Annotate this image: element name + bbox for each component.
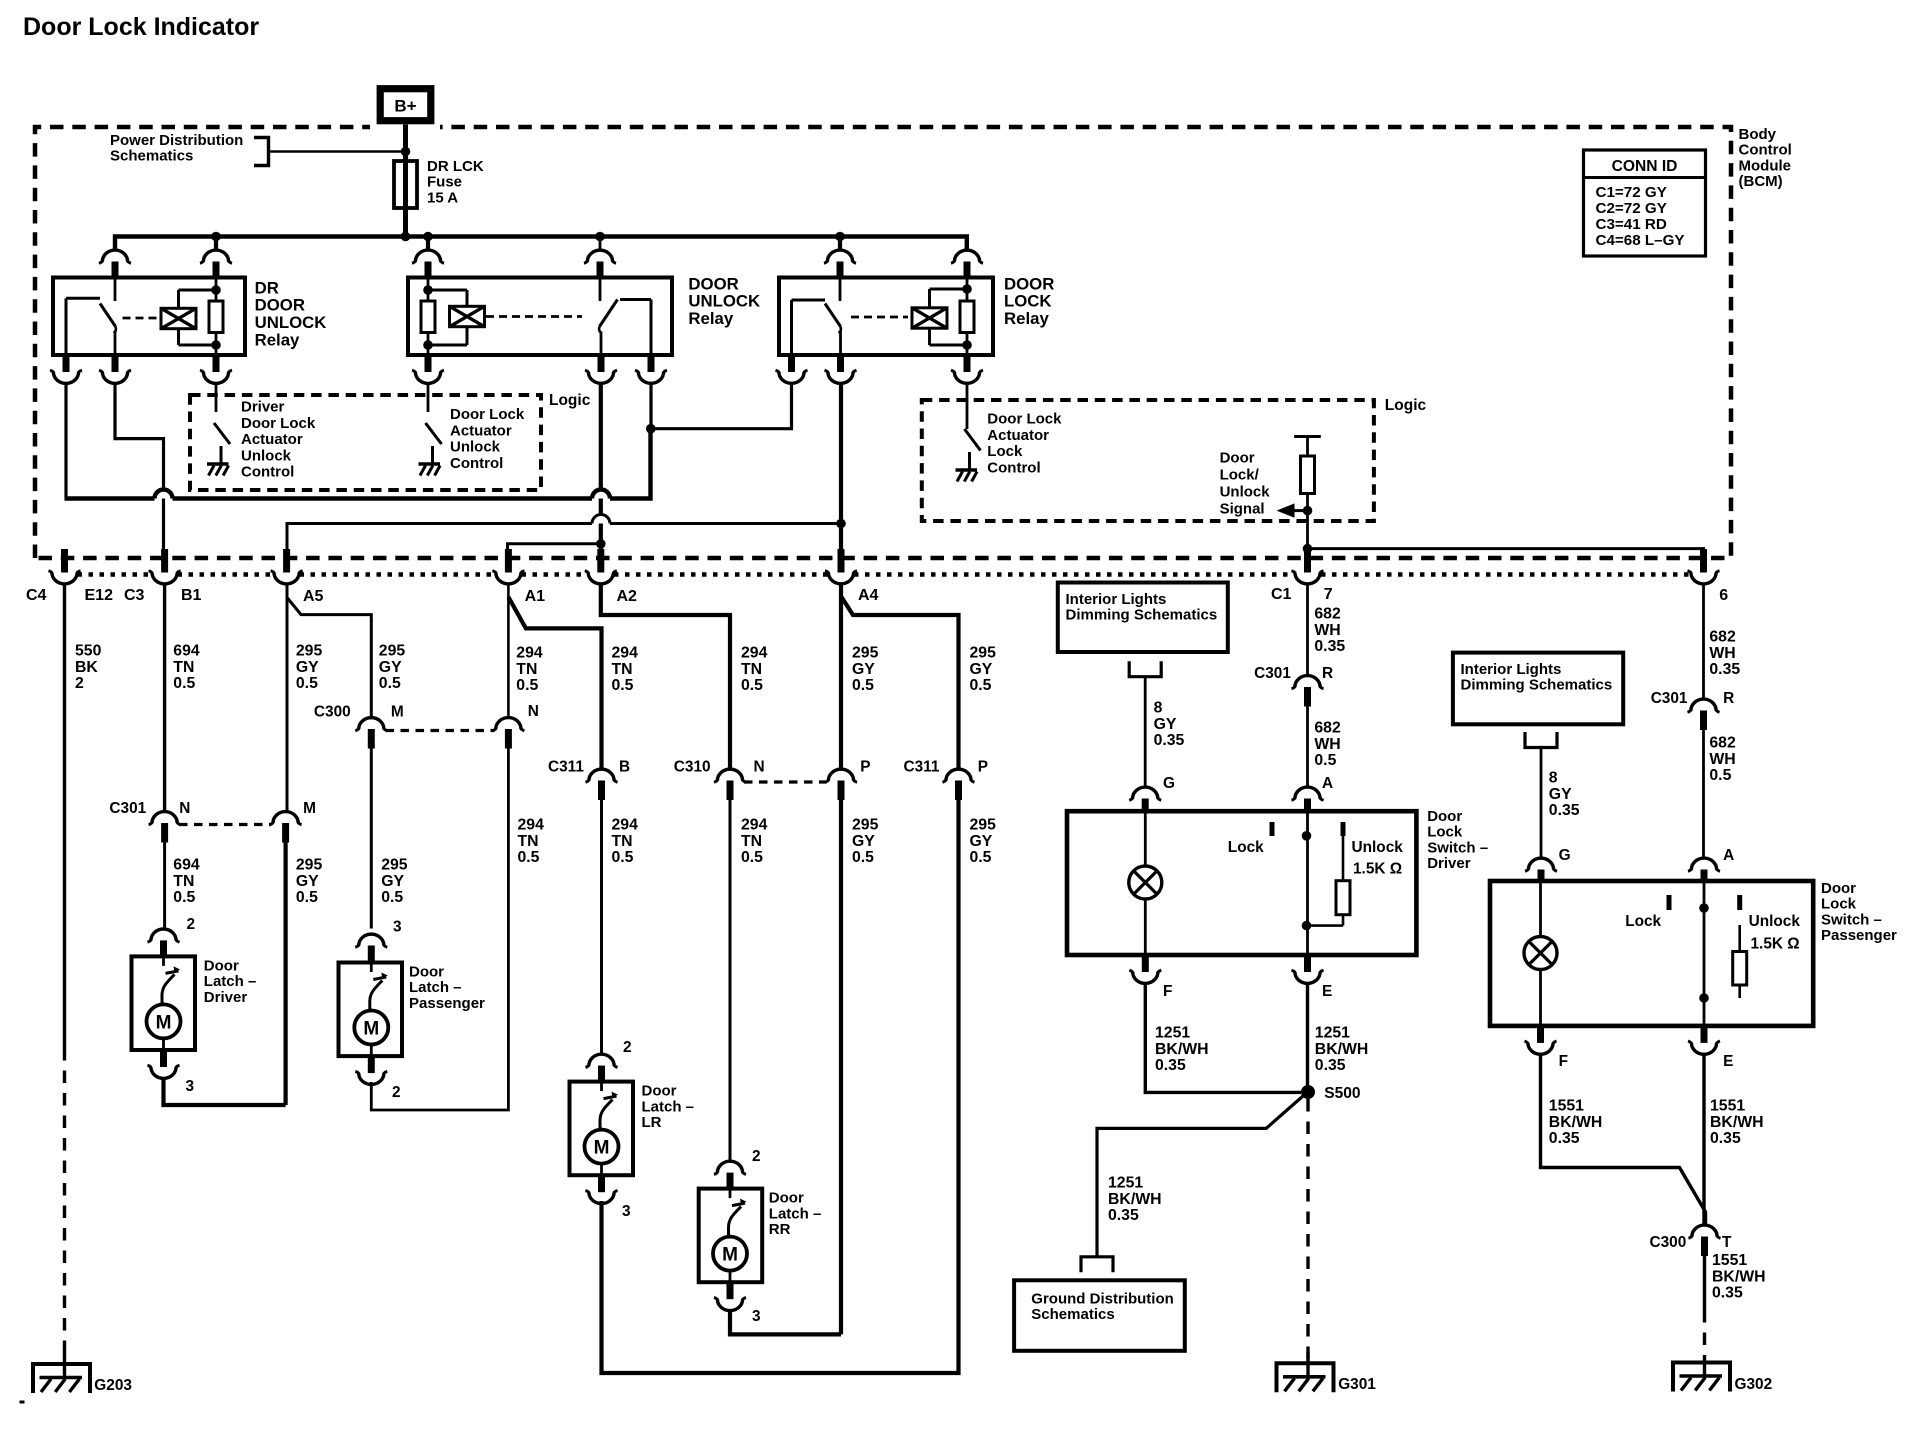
svg-text:Actuator: Actuator [450, 422, 512, 439]
wire: motor to box bottom (RR) [729, 1271, 732, 1283]
svg-text:1251: 1251 [1108, 1175, 1143, 1192]
motor M (RR latch) [713, 1237, 747, 1271]
box: Interior Lights Dimming Schematics (driver) [1058, 583, 1228, 653]
ground G302 [1673, 1363, 1730, 1392]
wire 295 GY: C301 M to latch return [284, 843, 288, 1106]
svg-text:2: 2 [752, 1148, 761, 1165]
svg-text:1.5K Ω: 1.5K Ω [1751, 936, 1800, 953]
connector pin A2 [585, 549, 617, 584]
label: Door Latch LR [642, 1083, 695, 1131]
wire 682 WH: C301 R to switch A (passenger) [1702, 730, 1705, 858]
label: 295 GY 0.5 (passenger feed) [381, 857, 408, 907]
svg-text:A1: A1 [525, 588, 546, 605]
connector C311 pin B [586, 769, 618, 800]
connector C3 pin B1 [149, 549, 181, 584]
svg-text:Control: Control [1739, 142, 1792, 159]
svg-text:0.35: 0.35 [1712, 1285, 1743, 1302]
svg-text:15 A: 15 A [427, 189, 458, 206]
svg-text:S500: S500 [1324, 1085, 1361, 1102]
svg-text:F: F [1559, 1053, 1568, 1070]
box: Interior Lights Dimming Schematics (passenger) [1453, 653, 1623, 725]
relay K2 DOOR UNLOCK Relay box [408, 278, 672, 356]
label: Door Lock Actuator Lock Control [987, 410, 1062, 476]
connector C4 pin E12 [49, 549, 81, 584]
svg-text:E: E [1322, 983, 1332, 1000]
svg-text:BK/WH: BK/WH [1712, 1268, 1766, 1285]
svg-text:Latch –: Latch – [642, 1098, 695, 1115]
wire: A1 fork to C311 B [508, 597, 601, 769]
svg-text:Signal: Signal [1220, 500, 1265, 517]
label: C1 [1271, 586, 1292, 603]
svg-text:T: T [1722, 1234, 1732, 1251]
wire: signal branch to pin 6 [1308, 547, 1704, 550]
wire: B+ bus [115, 237, 967, 250]
svg-text:Logic: Logic [1385, 397, 1427, 414]
svg-text:P: P [860, 759, 870, 776]
relay K2 mechanical link [486, 315, 582, 318]
label: C4 [26, 587, 47, 604]
svg-text:Door Lock: Door Lock [450, 406, 525, 423]
ground G203 [33, 1364, 90, 1393]
junction: bus at relay3 switch [835, 232, 845, 242]
svg-text:0.35: 0.35 [1314, 638, 1345, 655]
relay K3 coil winding [960, 278, 974, 356]
svg-text:682: 682 [1709, 735, 1736, 752]
connector C301 pin R (passenger) [1688, 699, 1720, 730]
label: 1551 BK/WH 0.35 (E passenger) [1710, 1098, 1764, 1148]
svg-text:0.35: 0.35 [1709, 661, 1740, 678]
door latch Passenger pin 2 connector [355, 1055, 387, 1084]
relay K1 pin 1 connector (top) [99, 237, 131, 279]
svg-text:F: F [1163, 983, 1172, 1000]
door latch LR pin 2 connector [586, 1054, 618, 1082]
svg-text:GY: GY [296, 659, 319, 676]
connector C1 pin 7 [1292, 549, 1324, 584]
svg-text:2: 2 [75, 675, 84, 692]
svg-text:1551: 1551 [1710, 1098, 1745, 1115]
label: 295 GY 0.5 (below C311 P) [970, 817, 997, 867]
svg-text:C301: C301 [1651, 690, 1688, 707]
label: 1.5K ohm (driver) [1353, 861, 1402, 878]
wire 682 WH: C1 7 to C301 R [1306, 584, 1309, 676]
svg-text:Control: Control [987, 459, 1040, 476]
relay K1 pin 3 connector (bottom) [50, 354, 82, 383]
door latch RR switch [729, 1189, 747, 1237]
svg-text:Unlock: Unlock [1749, 913, 1801, 930]
wire: motor to box bottom (Passenger) [370, 1045, 373, 1057]
label: C311 (B) [548, 759, 584, 776]
switch S1 pin E connector [1292, 954, 1324, 983]
label: A4 [858, 587, 879, 604]
svg-text:A: A [1723, 847, 1734, 864]
relay K2 coil branch [428, 290, 467, 345]
svg-text:CONN ID: CONN ID [1612, 158, 1678, 175]
label: C301 (R passenger) [1651, 690, 1688, 707]
svg-text:P: P [978, 759, 988, 776]
svg-text:R: R [1723, 690, 1734, 707]
connector pin A4 [825, 549, 857, 584]
signal arrow: Door Lock/Unlock Signal [1277, 503, 1305, 517]
wire: switch common (driver) [1306, 811, 1309, 955]
svg-text:M: M [363, 1019, 379, 1040]
svg-text:M: M [594, 1138, 610, 1159]
svg-text:A4: A4 [858, 587, 879, 604]
svg-text:DR: DR [255, 278, 279, 297]
svg-text:GY: GY [970, 833, 993, 850]
svg-text:WH: WH [1709, 751, 1735, 768]
label: 295 GY 0.5 (below P) [852, 817, 879, 867]
svg-text:C4: C4 [26, 587, 47, 604]
svg-text:C300: C300 [314, 704, 351, 721]
svg-text:0.35: 0.35 [1549, 802, 1580, 819]
connector C300 pin T [1689, 1225, 1721, 1256]
wire: resistor to signal node [1306, 494, 1309, 511]
svg-text:1551: 1551 [1549, 1098, 1584, 1115]
svg-text:2: 2 [623, 1039, 632, 1056]
connector pin P (on A4 wire) [825, 769, 857, 800]
connector pin A5 [271, 549, 303, 584]
label: A2 [617, 588, 638, 605]
connector pin 6 [1688, 549, 1720, 584]
label: pin 2 (driver latch) [187, 916, 196, 933]
svg-text:C311: C311 [904, 759, 940, 776]
svg-text:Lock: Lock [987, 443, 1023, 460]
junction: bus at relay2 switch [595, 232, 605, 242]
svg-text:0.5: 0.5 [516, 677, 538, 694]
wire: lamp to box bottom (passenger) [1539, 970, 1542, 1026]
svg-text:Lock: Lock [1821, 896, 1857, 913]
svg-text:0.5: 0.5 [852, 677, 874, 694]
ground: lock control (chassis) [956, 452, 978, 482]
wire 694 TN: C301 N to door latch driver pin 2 [163, 843, 166, 930]
label: A1 [525, 588, 546, 605]
connector C301 pin M [270, 812, 302, 843]
bracket: interior lights driver [1129, 661, 1161, 677]
label: M (C300) [391, 704, 404, 721]
label: Door Latch Driver [204, 957, 257, 1005]
svg-text:GY: GY [1549, 786, 1572, 803]
label: Logic (right) [1385, 397, 1427, 414]
box: Ground Distribution Schematics [1014, 1280, 1185, 1351]
label: B1 [181, 587, 202, 604]
svg-text:295: 295 [970, 645, 997, 662]
relay K2 pin 2 connector (top) [584, 237, 616, 279]
junction: bus at relay2 coil [423, 232, 433, 242]
svg-text:TN: TN [612, 661, 633, 678]
svg-text:LOCK: LOCK [1004, 292, 1052, 311]
ground: unlock control (chassis) [419, 446, 441, 476]
wire 1551: F to C300 T (passenger) [1541, 1053, 1706, 1225]
motor M (LR latch) [585, 1130, 619, 1164]
svg-text:C311: C311 [548, 759, 584, 776]
svg-text:Door: Door [1427, 808, 1462, 825]
svg-text:7: 7 [1324, 586, 1333, 603]
svg-text:Switch –: Switch – [1821, 911, 1882, 928]
label: G (driver) [1163, 775, 1175, 792]
jumper: C301 N to M [179, 823, 271, 826]
svg-text:TN: TN [741, 833, 762, 850]
relay K1 coil junctions [211, 285, 221, 350]
switch S2 pin G connector [1525, 858, 1557, 882]
Body Control Module (BCM) dashed boundary [35, 127, 1731, 558]
svg-text:0.5: 0.5 [296, 889, 318, 906]
label: pin 3 (driver latch) [186, 1078, 195, 1095]
svg-text:Ground Distribution: Ground Distribution [1031, 1290, 1173, 1307]
svg-text:E12: E12 [85, 587, 114, 604]
label: Door Lock Actuator Unlock Control [450, 406, 525, 472]
door latch Passenger box [339, 963, 403, 1057]
relay K2 pin 4 connector (bottom) [585, 354, 617, 383]
label: 294 TN 0.5 (below C300 N) [518, 817, 545, 867]
stray mark [20, 1401, 25, 1404]
connector body dotted line [78, 572, 1691, 577]
label: C301 (R driver) [1254, 665, 1291, 682]
relay K2 pin 3 connector (bottom) [412, 354, 444, 383]
svg-text:TN: TN [516, 661, 537, 678]
svg-text:WH: WH [1314, 622, 1340, 639]
svg-text:R: R [1322, 665, 1333, 682]
junction: lower node (passenger) [1699, 993, 1709, 1003]
svg-text:0.35: 0.35 [1549, 1130, 1580, 1147]
relay K1 DR DOOR UNLOCK Relay box [53, 278, 245, 356]
relay K3 coil junctions [962, 284, 972, 350]
svg-text:3: 3 [186, 1078, 195, 1095]
label: R (passenger) [1723, 690, 1734, 707]
connector pin A1 [492, 549, 524, 584]
svg-text:0.5: 0.5 [518, 849, 540, 866]
svg-text:Door: Door [642, 1083, 677, 1100]
label: 8 GY 0.35 (passenger) [1549, 770, 1580, 820]
svg-text:1551: 1551 [1712, 1252, 1747, 1269]
label: P (C311) [978, 759, 988, 776]
svg-text:295: 295 [381, 857, 408, 874]
svg-text:C4=68 L–GY: C4=68 L–GY [1596, 232, 1685, 249]
junction: A5 branch node [836, 519, 846, 529]
door latch Driver switch [162, 956, 180, 1004]
relay K3 DOOR LOCK Relay box [779, 278, 993, 356]
svg-text:E: E [1723, 1053, 1733, 1070]
wire: B+ down to fuse [403, 125, 408, 162]
svg-text:Door Lock Indicator: Door Lock Indicator [23, 13, 259, 41]
svg-text:C1=72 GY: C1=72 GY [1596, 184, 1667, 201]
svg-text:0.35: 0.35 [1154, 732, 1185, 749]
label: 694 TN 0.5 (upper) [173, 643, 200, 693]
connector C301 pin N [149, 812, 181, 843]
label: 295 GY 0.5 (A4 column) [852, 645, 879, 695]
svg-text:Switch –: Switch – [1427, 839, 1488, 856]
relay K3 switch [792, 278, 841, 356]
svg-text:C301: C301 [109, 800, 146, 817]
label: G302 [1735, 1376, 1773, 1393]
ground G301 [1277, 1352, 1334, 1392]
wire: relay K2 pin4 to A2 [599, 385, 603, 550]
svg-text:0.5: 0.5 [1709, 767, 1731, 784]
label: 295 GY 0.5 (below C301 M) [296, 857, 323, 907]
label: 294 TN 0.5 (LR feed) [612, 817, 639, 867]
door latch LR box [570, 1082, 634, 1176]
label: R (driver) [1322, 665, 1333, 682]
label: C311 (P) [904, 759, 940, 776]
wire: relay K1 pin5 to unlock control switch [215, 385, 218, 413]
svg-text:G: G [1559, 847, 1571, 864]
junction: signal branch node [1303, 544, 1313, 554]
label: pin 2 (RR latch) [752, 1148, 761, 1165]
svg-text:0.5: 0.5 [612, 849, 634, 866]
relay K2 pin 1 connector (top) [412, 237, 444, 279]
door latch Driver pin 2 connector [148, 929, 180, 957]
svg-text:BK/WH: BK/WH [1108, 1191, 1162, 1208]
label: A5 [303, 588, 324, 605]
label: N (C300) [528, 703, 539, 720]
wire 8 GY: to switch G (driver) [1144, 677, 1147, 787]
switch S2 pin A connector [1688, 858, 1720, 882]
relay K1 coil branch [179, 290, 217, 345]
svg-text:Module: Module [1739, 157, 1792, 174]
label: 1551 BK/WH 0.35 (to G302) [1712, 1252, 1766, 1302]
svg-text:0.35: 0.35 [1155, 1057, 1186, 1074]
label: 682 WH 0.35 (passenger) [1709, 629, 1740, 679]
label: 294 TN 0.5 (RR feed) [741, 817, 768, 867]
contact: lock position (passenger) [1667, 895, 1672, 910]
svg-text:N: N [528, 703, 539, 720]
wire: lock node to relay K3 pin3 [651, 385, 792, 429]
label: DOOR LOCK Relay [1004, 274, 1054, 328]
label: Door Latch Passenger [409, 963, 485, 1011]
resistor: door lock/unlock signal [1301, 456, 1315, 494]
svg-text:0.5: 0.5 [173, 675, 195, 692]
relay K1 pin 4 connector (bottom) [99, 354, 131, 383]
indicator lamp (passenger) [1524, 937, 1557, 970]
svg-text:DOOR: DOOR [688, 274, 738, 293]
label: E12 [85, 587, 114, 604]
power feed B+ [370, 80, 440, 130]
label: Lock (passenger) [1625, 913, 1661, 930]
svg-text:A5: A5 [303, 588, 324, 605]
label: pin 3 (passenger latch) [393, 919, 402, 936]
label: N (C310) [754, 759, 765, 776]
connector C310 pin N [714, 769, 746, 800]
svg-text:N: N [179, 800, 190, 817]
contact: unlock position (passenger) [1737, 895, 1742, 910]
wire: S500 to G301 (dashed) [1306, 1099, 1309, 1363]
Door Lock Switch Passenger box [1490, 881, 1813, 1026]
bracket: power distribution reference [254, 138, 269, 166]
label: 294 TN 0.5 (A1 column) [516, 645, 543, 695]
relay K1 switch [66, 278, 116, 356]
label: Driver Door Lock Actuator Unlock Control [241, 398, 316, 480]
svg-text:Schematics: Schematics [110, 148, 193, 165]
svg-text:0.5: 0.5 [970, 677, 992, 694]
label: DOOR UNLOCK Relay [688, 274, 760, 328]
motor M (Passenger latch) [354, 1011, 388, 1045]
door latch Passenger pin 3 connector [355, 934, 387, 963]
svg-text:M: M [156, 1012, 172, 1033]
svg-text:6: 6 [1719, 587, 1728, 604]
svg-text:694: 694 [173, 643, 200, 660]
label: pin 3 (LR latch) [622, 1203, 631, 1220]
resistor 1.5K (driver) [1307, 836, 1351, 926]
svg-text:1251: 1251 [1315, 1025, 1350, 1042]
svg-text:Door: Door [1821, 880, 1856, 897]
wire 294 TN: A1 to C300 N [507, 584, 510, 718]
svg-text:0.5: 0.5 [1314, 752, 1336, 769]
label: Unlock (passenger) [1749, 913, 1801, 930]
svg-text:A2: A2 [617, 588, 638, 605]
connector C300 pin M [355, 718, 387, 749]
door latch Driver box [132, 956, 196, 1050]
svg-text:Passenger: Passenger [409, 995, 485, 1012]
svg-text:Door: Door [204, 957, 239, 974]
svg-text:Relay: Relay [688, 309, 733, 328]
svg-text:Door: Door [409, 963, 444, 980]
label: pin 3 (RR latch) [752, 1308, 761, 1325]
svg-text:DR LCK: DR LCK [427, 158, 484, 175]
bracket: interior lights passenger [1525, 732, 1557, 748]
svg-text:682: 682 [1314, 720, 1341, 737]
relay K2 coil junctions [423, 285, 433, 350]
svg-text:UNLOCK: UNLOCK [688, 292, 760, 311]
junction: lock feed node [646, 424, 656, 434]
svg-text:TN: TN [518, 833, 539, 850]
wire: bracket to fuse node [269, 150, 406, 153]
svg-text:0.5: 0.5 [741, 849, 763, 866]
svg-text:295: 295 [852, 817, 879, 834]
svg-text:DOOR: DOOR [255, 296, 305, 315]
svg-text:0.35: 0.35 [1108, 1207, 1139, 1224]
junction: common-blade (driver) [1302, 831, 1312, 841]
relay K2 solenoid symbol [450, 290, 485, 345]
svg-text:694: 694 [173, 857, 200, 874]
label: DR DOOR UNLOCK Relay [255, 278, 327, 349]
label: 550 BK 2 [75, 643, 102, 693]
svg-text:C3: C3 [124, 587, 145, 604]
svg-text:G302: G302 [1735, 1376, 1773, 1393]
label: 294 TN 0.5 (C310 N column) [741, 645, 768, 695]
bracket: ground distribution reference [1081, 1257, 1113, 1273]
label: T [1722, 1234, 1732, 1251]
svg-text:Lock: Lock [1625, 913, 1661, 930]
svg-text:WH: WH [1314, 736, 1340, 753]
svg-text:Relay: Relay [255, 330, 300, 349]
svg-text:1.5K Ω: 1.5K Ω [1353, 861, 1402, 878]
wire: motor to box bottom (Driver) [162, 1038, 165, 1050]
svg-text:C1: C1 [1271, 586, 1292, 603]
svg-text:Dimming Schematics: Dimming Schematics [1461, 677, 1613, 694]
junction: bus at fuse [401, 232, 411, 242]
wire: relay K1 pin3 to E12 column [64, 385, 67, 499]
junction: A1 branch node [596, 539, 606, 549]
jumper: C310 N to P [744, 780, 827, 783]
splice S500 [1301, 1085, 1315, 1099]
label: G (passenger) [1559, 847, 1571, 864]
label: 295 GY 0.5 (A5 column) [296, 643, 323, 693]
junction: bus at relay1 coil [211, 232, 221, 242]
title: Door Lock Indicator [23, 13, 259, 41]
label: B (C311) [619, 759, 630, 776]
svg-text:Door Lock: Door Lock [241, 415, 316, 432]
svg-text:C300: C300 [1650, 1234, 1687, 1251]
label: M (C301) [303, 800, 316, 817]
svg-text:Power Distribution: Power Distribution [110, 132, 243, 149]
svg-text:295: 295 [296, 643, 323, 660]
svg-text:294: 294 [741, 645, 768, 662]
label: DR LCK Fuse 15 A [427, 158, 484, 206]
wire: motor to box bottom (LR) [600, 1164, 603, 1176]
relay K1 pin 2 connector (top) [200, 237, 232, 279]
svg-text:Unlock: Unlock [450, 439, 501, 456]
label: 1251 BK/WH 0.35 (to grounds) [1108, 1175, 1162, 1225]
wire 295 GY: A5 to C301 M [286, 584, 289, 812]
